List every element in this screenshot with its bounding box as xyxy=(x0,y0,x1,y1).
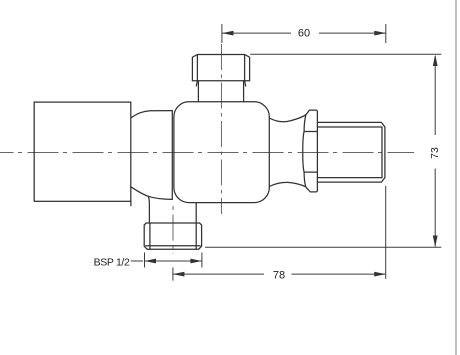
svg-text:73: 73 xyxy=(429,147,441,159)
svg-text:78: 78 xyxy=(273,269,285,281)
svg-text:60: 60 xyxy=(298,27,310,39)
svg-text:BSP 1/2: BSP 1/2 xyxy=(94,256,130,268)
